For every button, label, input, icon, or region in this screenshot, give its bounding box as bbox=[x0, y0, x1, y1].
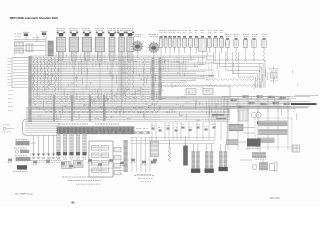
vertical wire bundle mid-left bbox=[119, 56, 125, 96]
svg-text:MPFI (With Automatic Shoulder: MPFI (With Automatic Shoulder Belt) bbox=[10, 16, 58, 20]
dense tap column (dark hatched) bbox=[152, 58, 162, 100]
left column component: relay (dark) bbox=[13, 165, 27, 172]
small relay boxes above ground row bbox=[62, 161, 84, 169]
left column component: resistor pack bbox=[15, 155, 31, 161]
left small relay group bbox=[23, 31, 48, 39]
right small module 2 bbox=[226, 140, 238, 146]
coil winding symbol bbox=[168, 140, 170, 162]
dark sensor bar bbox=[183, 136, 188, 166]
wavy verticals center band bbox=[127, 58, 144, 91]
drop wires from harness to ground points bbox=[31, 136, 61, 164]
right cluster link wires bbox=[238, 128, 300, 164]
relay box dashed (auto shoulder belt control) bbox=[255, 118, 292, 147]
bottom miscellaneous connectors and grounds bbox=[8, 159, 51, 165]
left connector boxes bbox=[15, 43, 34, 54]
right mid branch wires bbox=[222, 96, 290, 112]
right bottom vertical wires bbox=[228, 108, 288, 150]
wire label specks on harness bbox=[34, 57, 213, 120]
left column component: pressure sources switch bbox=[16, 139, 37, 145]
right far small connector bbox=[292, 145, 300, 152]
wire drops to sensor connectors bbox=[150, 122, 227, 144]
vertical bundle right of shield box bbox=[209, 99, 227, 122]
left margin small symbols bbox=[2, 125, 14, 133]
far right connector group (lighter) bbox=[225, 34, 267, 61]
sensor connector pair 3 bbox=[219, 144, 228, 171]
small connector with label (upper right) bbox=[269, 69, 278, 85]
bottom small connector row with labels bbox=[60, 159, 157, 169]
harness rule lines (darker) bbox=[26, 75, 308, 108]
wire bundles from ECU strip down bbox=[56, 134, 86, 160]
zigzag cable run lower bbox=[44, 111, 159, 113]
wire drops right of fuse box bbox=[130, 138, 152, 175]
ECU connector strip (hatched) bbox=[57, 124, 134, 134]
right small module 5 bbox=[252, 157, 268, 160]
harness mesh vertical drops bbox=[32, 56, 212, 105]
main wiring harness horizontal bus bbox=[30, 56, 214, 82]
wire routing loops (nested) from top connectors bbox=[207, 52, 265, 88]
vertical tap wires on harness bbox=[32, 57, 298, 120]
svg-text:Fig. 9 MPFI circuit: Fig. 9 MPFI circuit bbox=[15, 193, 33, 196]
vertical wire bundles lower band bbox=[53, 95, 105, 121]
right small module 6 bbox=[252, 162, 277, 171]
vertical sensor component left of connectors bbox=[151, 141, 159, 157]
shielded cable wavy envelope bbox=[206, 79, 261, 87]
small parts between connectors bbox=[151, 124, 216, 131]
pin number column left edge bbox=[8, 57, 29, 111]
bottom extra label marks bbox=[88, 168, 128, 171]
oxygen sensor connector pair 2 bbox=[205, 144, 214, 173]
distributor rotary component (left circle with spokes) bbox=[131, 34, 160, 58]
right small module 4 bbox=[252, 153, 266, 158]
small branch component below dark wire bbox=[224, 109, 272, 124]
long wire to right edge bbox=[295, 94, 319, 96]
left stub wires into trunk bbox=[13, 58, 28, 85]
left harness trunk (dense) bbox=[28, 56, 31, 122]
right small module 3 (dark) bbox=[246, 139, 261, 150]
ignition coil / solenoid component row (top center) bbox=[56, 28, 134, 116]
left group extra labels bbox=[14, 34, 39, 39]
shielded box with zigzag border (center right) bbox=[161, 85, 230, 98]
harness bus middle section bbox=[30, 85, 160, 95]
sensor connector row (top, right of center) bbox=[159, 30, 223, 69]
heavy dark wire segment (right edge) bbox=[291, 103, 317, 105]
wavy vertical wire bundle at band left bbox=[33, 58, 59, 92]
harness bus bottom section bbox=[26, 110, 230, 122]
left column component: diode block bbox=[15, 148, 30, 154]
small relay rects right of fuse box bbox=[114, 148, 121, 175]
fuse and relay box (center) bbox=[89, 141, 113, 177]
right small module 1 bbox=[229, 125, 243, 131]
svg-text:86: 86 bbox=[72, 201, 75, 205]
inline connector pairs right mid bbox=[231, 95, 290, 108]
wire bundle below coils bbox=[56, 53, 130, 58]
harness bus lower section (full width) bbox=[30, 97, 310, 109]
sensor lower mark bbox=[151, 161, 156, 164]
zigzag braided wire rows on harness bbox=[31, 63, 159, 103]
svg-text:B6F158A: B6F158A bbox=[270, 197, 280, 200]
label text block under aux modules bbox=[62, 175, 155, 185]
connector column bar (hatched) bbox=[124, 140, 128, 172]
symbol row above fuse box bbox=[94, 128, 150, 134]
ignition resistor block (dark) bbox=[48, 41, 53, 56]
oxygen sensor connector pair 1 bbox=[191, 144, 200, 173]
harness left rounded end cap bbox=[23, 119, 61, 136]
wire: left group to harness bbox=[14, 34, 46, 56]
